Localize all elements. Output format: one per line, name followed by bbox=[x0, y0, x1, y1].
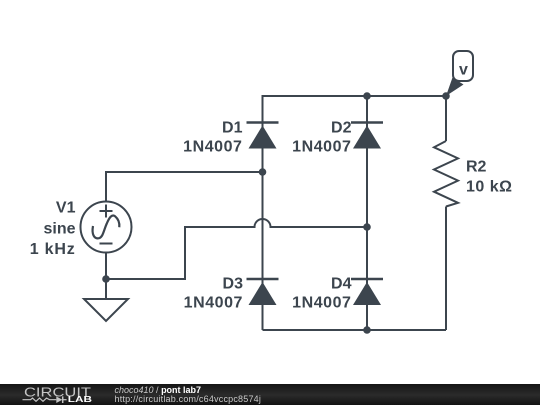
svg-text:1N4007: 1N4007 bbox=[292, 295, 351, 312]
diode D2 bbox=[351, 123, 383, 149]
diode D1 bbox=[247, 123, 279, 149]
wire right column (D2/D4) bbox=[366, 96, 368, 330]
svg-text:LAB: LAB bbox=[68, 394, 92, 404]
node V1- / D2-D4 junction bbox=[363, 223, 371, 231]
node A (V1+ / D1-D3 junction) bbox=[259, 168, 267, 176]
wire V1 bottom to ground bbox=[105, 253, 107, 300]
svg-text:1N4007: 1N4007 bbox=[184, 295, 243, 312]
footer bar bbox=[0, 384, 540, 405]
svg-text:1N4007: 1N4007 bbox=[292, 139, 351, 156]
svg-text:R2: R2 bbox=[466, 159, 487, 176]
svg-text:D1: D1 bbox=[222, 120, 243, 137]
svg-text:10 kΩ: 10 kΩ bbox=[466, 179, 512, 196]
svg-text:sine: sine bbox=[43, 221, 75, 238]
node probe / R2 top bbox=[442, 92, 450, 100]
diode D3 bbox=[247, 279, 279, 305]
svg-text:1 kHz: 1 kHz bbox=[30, 241, 76, 258]
ground bbox=[84, 299, 128, 321]
diode D4 bbox=[351, 279, 383, 305]
svg-text:D3: D3 bbox=[223, 276, 244, 293]
node V1 bottom / ground bbox=[102, 275, 110, 283]
voltmeter probe v bbox=[446, 51, 473, 96]
wire V1 plus to bridge bbox=[106, 172, 263, 202]
wire V1 minus to bridge with hop bbox=[106, 219, 367, 279]
wire R2 column right bbox=[445, 96, 447, 330]
svg-text:D2: D2 bbox=[331, 120, 352, 137]
wire top rail bbox=[263, 96, 447, 172]
svg-text:1N4007: 1N4007 bbox=[183, 139, 242, 156]
footer text bbox=[115, 386, 262, 405]
CircuitLab logo bbox=[0, 383, 110, 405]
svg-text:V1: V1 bbox=[56, 200, 76, 217]
voltage source V1 bbox=[81, 202, 132, 253]
svg-text:v: v bbox=[459, 62, 468, 79]
node bottom rail / D4 bbox=[363, 326, 371, 334]
svg-text:D4: D4 bbox=[331, 276, 352, 293]
wire left column (D1/D3) bbox=[262, 96, 264, 330]
resistor R2 bbox=[434, 141, 458, 207]
wire bottom rail bbox=[263, 329, 447, 331]
node top rail / D2 bbox=[363, 92, 371, 100]
